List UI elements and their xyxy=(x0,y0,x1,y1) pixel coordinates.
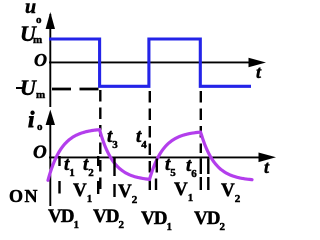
label V2 first xyxy=(118,182,137,201)
tick t1 lower xyxy=(58,181,60,194)
label VD2 second xyxy=(194,209,225,228)
label t1 xyxy=(64,155,75,174)
label ON xyxy=(9,187,39,205)
tick zero-cross after t6 lower xyxy=(207,177,209,190)
tick t2 lower xyxy=(97,181,99,194)
label -Um xyxy=(16,87,23,90)
u-axis arrowhead xyxy=(46,12,55,29)
label t2 xyxy=(83,155,94,174)
dashed vertical at t2 (x=100) xyxy=(99,90,101,195)
label V2 second xyxy=(221,181,240,200)
i_o axis line (below arrowhead) xyxy=(49,124,51,206)
u_o square wave xyxy=(49,39,251,86)
label Um xyxy=(20,23,36,45)
label t top xyxy=(256,63,261,81)
label O top xyxy=(34,51,47,69)
dashed vertical at t4 (x=150) xyxy=(149,91,151,190)
tick t2 xyxy=(97,156,99,166)
label t bottom xyxy=(264,158,269,176)
label t6 xyxy=(186,156,197,175)
tick t6 xyxy=(200,159,202,175)
label u_o xyxy=(25,0,36,17)
label V1 first xyxy=(73,181,92,200)
label VD1 first xyxy=(48,207,79,226)
bottom t-axis xyxy=(49,156,262,158)
tick t6 lower xyxy=(200,177,202,190)
label t4 xyxy=(136,127,147,146)
tick t5 lower xyxy=(155,179,157,191)
vertical axis (shared u and i_o axis line) xyxy=(49,14,51,107)
dashed vertical at t6 (x=201) xyxy=(200,91,202,153)
tick t3 xyxy=(113,157,115,176)
tick t3 lower xyxy=(113,184,115,197)
top t-axis arrowhead xyxy=(249,58,267,68)
label VD1 second xyxy=(141,209,172,228)
tick t5 xyxy=(156,159,158,173)
i_o load-current curve xyxy=(48,130,252,181)
bottom t-axis arrowhead xyxy=(259,153,277,163)
tick t1 xyxy=(58,156,60,166)
label t5 xyxy=(165,155,176,174)
top t-axis xyxy=(49,61,252,63)
label O bottom xyxy=(33,143,47,162)
dashed -Um level line xyxy=(52,88,99,91)
label i_o xyxy=(28,108,34,131)
label VD2 first xyxy=(93,207,124,226)
label V1 second xyxy=(174,180,193,199)
label t3 xyxy=(107,127,118,146)
tick zero-cross after t6 xyxy=(207,159,209,175)
i_o-axis arrowhead xyxy=(46,110,55,126)
